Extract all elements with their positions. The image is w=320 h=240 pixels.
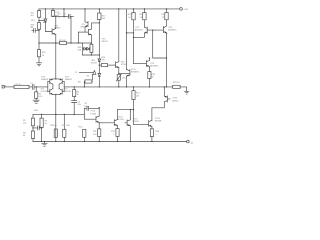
node R20 tap — [99, 64, 100, 65]
svg-text:C1: C1 — [30, 83, 33, 85]
svg-text:2SA970: 2SA970 — [65, 78, 73, 81]
ground G4 — [42, 142, 47, 147]
node rail-R17 — [38, 9, 40, 11]
bottom rail — [33, 141, 187, 143]
resistor R14 ring — [90, 44, 93, 52]
emitter arrow VT13 — [128, 124, 131, 126]
emitter arrow VT8 — [164, 31, 167, 34]
svg-text:130: 130 — [78, 81, 82, 83]
node fb VT8b emitter — [166, 86, 167, 87]
svg-text:2SC970: 2SC970 — [64, 91, 72, 93]
node A emitter join — [133, 37, 134, 38]
node fb column — [133, 86, 134, 87]
svg-text:R23: R23 — [151, 74, 156, 76]
wire bases node down — [153, 30, 167, 58]
node output bases — [152, 29, 153, 30]
wire VT10 base — [119, 72, 130, 74]
svg-text:KD521: KD521 — [91, 63, 98, 65]
column VD5 from ring to output — [98, 55, 100, 59]
svg-text:R5: R5 — [23, 120, 26, 122]
diode VD3 — [83, 47, 87, 50]
svg-text:R23: R23 — [139, 14, 144, 16]
emitter arrow VT6a — [59, 93, 62, 96]
cap C5 triangle symbol — [93, 71, 96, 75]
capacitor C2 — [68, 14, 73, 18]
svg-text:3k: 3k — [23, 135, 25, 137]
resistor R1 — [14, 85, 29, 88]
resistor R7 column — [41, 114, 42, 115]
mirror wire — [118, 109, 134, 111]
svg-text:R9: R9 — [62, 125, 65, 127]
node VT9 emitter fb — [149, 86, 150, 87]
wire node A to zener — [39, 20, 44, 22]
resistor R11 — [98, 122, 100, 141]
capacitor C1 — [29, 84, 48, 89]
transistor VT4b lower-left — [48, 89, 53, 95]
column rail to VT10 collector — [126, 9, 128, 69]
svg-text:R1 1k: R1 1k — [15, 84, 20, 86]
wire VT9 collector up — [148, 58, 150, 61]
transistor VT8b output — [164, 26, 167, 33]
resistor R23e — [148, 67, 150, 87]
svg-text:1k: 1k — [45, 123, 47, 125]
resistor R10 column — [83, 129, 86, 137]
wire R24 to VT8b collector — [166, 20, 168, 26]
bias ring bottom tie — [83, 54, 100, 56]
terminal -U — [187, 140, 190, 143]
upper tail wire — [53, 43, 59, 79]
rail junction dots — [41, 141, 42, 142]
svg-text:R12: R12 — [111, 131, 116, 133]
svg-text:1k: 1k — [77, 94, 79, 96]
svg-text:12k: 12k — [23, 123, 26, 125]
transistor VT10 driver low — [127, 69, 130, 76]
svg-text:R15: R15 — [102, 15, 107, 17]
svg-text:R20: R20 — [42, 52, 47, 54]
node comp-fb — [84, 86, 85, 87]
svg-text:VD4: VD4 — [77, 50, 82, 52]
transistor VT9 driver — [146, 61, 149, 67]
transistor VT4a upper-left — [48, 79, 53, 89]
wire VT4 base column — [77, 32, 79, 43]
bias ring left leg — [82, 43, 84, 55]
emitter arrow VT7 — [144, 31, 147, 34]
wire VT7 base to VT8b base — [147, 29, 163, 31]
wire comp down — [91, 74, 94, 81]
svg-text:2SC970: 2SC970 — [40, 91, 48, 93]
wire R20 to spreader base — [108, 64, 116, 66]
wire VT11 collector — [117, 110, 119, 120]
svg-text:R25 10: R25 10 — [173, 82, 180, 84]
svg-text:BDW93C: BDW93C — [135, 30, 144, 32]
svg-text:KT639: KT639 — [90, 113, 97, 115]
transistor VT6 bias spreader — [116, 62, 119, 68]
wire zener to VT2 base — [45, 22, 52, 32]
svg-text:BDW93C: BDW93C — [131, 72, 140, 74]
rail column x64 — [63, 8, 64, 9]
emitter arrow VT11 — [115, 124, 118, 126]
resistor R22 top — [133, 8, 134, 9]
column R22 down — [133, 20, 135, 64]
resistor R6 — [31, 131, 34, 139]
node VAS collector — [99, 22, 100, 23]
wire VT12 collector L — [152, 102, 164, 121]
wire VT10b collector — [98, 108, 100, 117]
resistor R21 — [60, 42, 67, 45]
node A — [38, 20, 39, 21]
transistor VT10b — [84, 114, 99, 122]
top supply rail — [39, 8, 180, 10]
svg-text:BD908: BD908 — [155, 121, 162, 123]
wire R17-R18 — [38, 17, 40, 22]
svg-text:100: 100 — [53, 125, 57, 127]
resistor R20 — [99, 64, 101, 66]
zener VD1 column — [45, 8, 46, 9]
svg-text:47k: 47k — [39, 96, 42, 98]
transistor VT12 output low — [164, 96, 170, 102]
wire VT10 emitter to fb — [126, 76, 128, 87]
svg-text:56: 56 — [151, 77, 154, 79]
emitter arrow VT10 — [126, 74, 129, 76]
wire spreader emitter down — [118, 68, 120, 74]
node R5-R6 — [32, 127, 33, 128]
resistor R17 — [37, 11, 40, 18]
svg-text:C9: C9 — [58, 14, 61, 16]
quad right bases column — [63, 81, 65, 91]
emitter arrow VT4a — [59, 78, 62, 80]
wire input — [4, 86, 14, 88]
transistor VT3 cascode top — [84, 8, 85, 9]
svg-text:R21 68: R21 68 — [59, 40, 66, 42]
svg-text:470: 470 — [101, 60, 105, 62]
column spreader collector to rail — [118, 8, 119, 9]
chain R5 R6 left — [32, 114, 34, 141]
svg-text:3k3: 3k3 — [102, 18, 106, 20]
resistor R12 — [117, 126, 119, 142]
wire VD5 to VD6 — [98, 62, 100, 74]
resistor R24e — [151, 126, 153, 141]
diode VD4 — [87, 47, 90, 50]
wire VT4 collector — [92, 23, 100, 29]
svg-text:R24: R24 — [156, 131, 161, 133]
svg-text:KT639: KT639 — [133, 121, 140, 123]
wire VT7 emitter — [134, 33, 145, 37]
svg-text:R7: R7 — [45, 120, 48, 122]
wire trimmer to output node — [118, 80, 120, 87]
mid bus wire — [33, 113, 84, 115]
transistor VT5b lower-right — [59, 89, 64, 95]
resistor R20 — [38, 43, 40, 63]
resistor R16 — [99, 8, 100, 9]
emitter arrow VT10b — [97, 121, 100, 123]
node input-R2 — [36, 86, 37, 87]
svg-text:R24: R24 — [161, 14, 166, 16]
emitter arrow VT6 — [117, 66, 120, 68]
capacitor C5 — [33, 126, 42, 130]
emitter arrow VT3a — [51, 78, 54, 80]
resistor R23 top — [144, 8, 145, 9]
svg-text:1k3: 1k3 — [136, 95, 140, 97]
wire VT2 collector up — [55, 16, 57, 28]
zener diode VD1 — [44, 19, 47, 23]
wire R21 to tie1 — [67, 42, 83, 44]
wire VT11 base — [99, 122, 114, 124]
emitter arrow VT3 — [85, 25, 88, 27]
svg-text:1k: 1k — [42, 55, 44, 57]
capacitor C5 comp wire — [79, 71, 93, 73]
svg-text:R21: R21 — [136, 93, 141, 95]
svg-text:BD912: BD912 — [172, 100, 179, 102]
wire C2 left — [53, 15, 68, 17]
svg-text:4k7: 4k7 — [31, 15, 35, 17]
capacitor C4 — [72, 101, 77, 115]
capacitor C8 — [84, 106, 99, 114]
wire VT9 base — [134, 63, 147, 65]
node fb trimmer — [118, 86, 119, 87]
wire rail column to R22 column — [127, 32, 134, 34]
svg-text:82: 82 — [87, 75, 90, 77]
emitter arrow VT2 — [53, 33, 56, 36]
node B cap branch — [38, 30, 39, 31]
svg-text:BF469: BF469 — [54, 28, 61, 30]
wire R18 down — [38, 29, 40, 43]
svg-text:-45: -45 — [190, 143, 194, 145]
transistor VT11 — [114, 120, 117, 126]
ground G3 — [185, 91, 189, 94]
resistor R18 — [37, 23, 40, 30]
node fb R4 — [74, 86, 75, 87]
trimmer R17b — [117, 75, 120, 81]
wire VT4 base — [78, 31, 88, 33]
node R19-C2 wire — [52, 16, 53, 17]
tail resistor R8 — [55, 114, 56, 115]
resistor R2 — [35, 87, 37, 100]
svg-text:47u: 47u — [77, 104, 80, 106]
lower tail wire — [53, 95, 59, 142]
resistor R4 — [73, 87, 75, 101]
resistor R9 column — [64, 114, 65, 115]
emitter arrow VT14 — [150, 125, 153, 127]
svg-text:+45V: +45V — [183, 9, 188, 11]
svg-text:1: 1 — [113, 134, 115, 136]
resistor R5 — [31, 118, 34, 126]
diode VD5 — [98, 59, 101, 62]
capacitor C3 — [32, 28, 39, 32]
transistor VT5a upper-right — [59, 79, 64, 89]
svg-text:100: 100 — [93, 134, 97, 136]
svg-text:R2: R2 — [39, 93, 42, 95]
svg-text:2SA970: 2SA970 — [41, 78, 49, 81]
transistor VT13 — [125, 120, 130, 126]
transistor VT2 — [52, 29, 56, 35]
wire comp box left down — [83, 82, 86, 87]
svg-text:R6: R6 — [23, 133, 26, 135]
svg-text:10: 10 — [58, 16, 61, 18]
resistor R25 zobel — [173, 85, 180, 88]
svg-text:+40V: +40V — [33, 110, 38, 112]
column C2 wire down to ring wire — [70, 16, 72, 43]
transistor VT14 — [149, 120, 152, 126]
wire node C to R21 — [39, 42, 60, 44]
svg-text:100: 100 — [66, 125, 70, 127]
wire zobel to ground — [180, 87, 187, 91]
svg-text:R17: R17 — [31, 12, 36, 14]
wire VT8b emitter to output — [166, 33, 168, 87]
emitter arrow VT4 — [89, 33, 92, 35]
svg-text:R4: R4 — [77, 91, 80, 93]
svg-text:R10: R10 — [79, 127, 84, 129]
resistor R13 comp — [85, 80, 92, 83]
svg-text:470: 470 — [122, 77, 126, 79]
svg-text:C3: C3 — [30, 27, 33, 29]
transistor VT4 VAS — [88, 29, 91, 35]
resistor R19 — [52, 8, 53, 9]
ground G1 — [36, 63, 41, 66]
node C — [38, 42, 39, 43]
terminal +U — [180, 8, 183, 11]
svg-text:BF470: BF470 — [102, 41, 109, 43]
transistor VT7 output — [144, 27, 147, 33]
wire VD6 down to output line — [98, 76, 100, 87]
wire VT13 emitter — [129, 126, 131, 142]
quad left bases column — [47, 81, 49, 91]
svg-text:VD1: VD1 — [31, 20, 36, 22]
node column-mirror wire — [133, 109, 134, 110]
resistor R21b — [132, 91, 135, 100]
svg-text:R11: R11 — [93, 131, 97, 133]
wire VT14 base — [134, 123, 149, 125]
wire R23 to VT7 collector — [143, 20, 145, 27]
emitter arrow VT9 — [147, 65, 150, 67]
wire VT2 emitter down — [55, 35, 57, 44]
wire VT12 emitter from fb — [163, 87, 165, 96]
column R21b lower — [133, 87, 135, 125]
emitter arrow VT5a — [51, 93, 54, 96]
svg-text:1: 1 — [156, 134, 158, 136]
svg-text:C5: C5 — [75, 72, 78, 74]
feedback line — [64, 86, 173, 88]
svg-text:KT961: KT961 — [118, 119, 125, 121]
ground G2 — [33, 100, 39, 103]
node bus C4 — [74, 114, 75, 115]
bias ring top tie — [83, 42, 92, 44]
wire VT13 collector — [129, 110, 131, 120]
resistor R24 top — [166, 8, 167, 9]
svg-text:BDW93C: BDW93C — [168, 30, 177, 32]
svg-text:10: 10 — [128, 17, 131, 19]
diode VD6 — [98, 74, 101, 77]
wire VT4 emitter — [90, 35, 92, 43]
svg-text:BDW93C: BDW93C — [150, 66, 159, 68]
emitter arrow VT12 — [164, 95, 167, 97]
svg-text:100n: 100n — [84, 106, 88, 108]
